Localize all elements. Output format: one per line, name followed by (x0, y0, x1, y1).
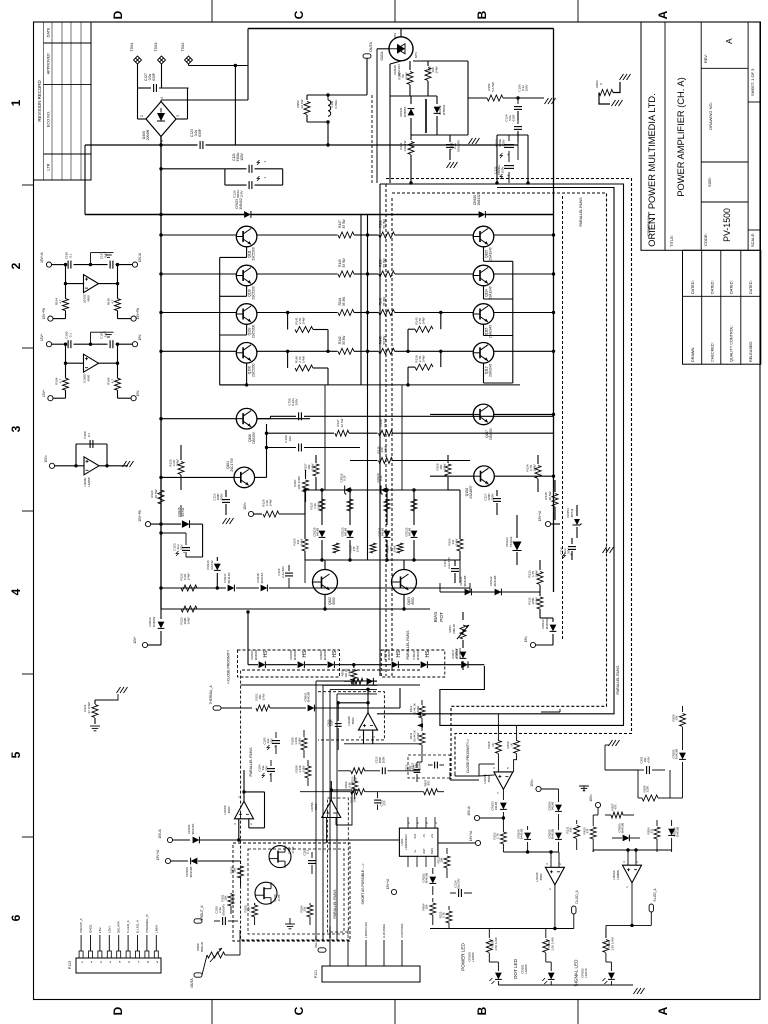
svg-text:9N416B: 9N416B (621, 823, 625, 834)
resistor R123 100K (181, 606, 197, 612)
resistor R102 18K (240, 861, 242, 864)
wire bridge bottom (160, 137, 162, 146)
svg-text:1/4W: 1/4W (297, 737, 301, 744)
svg-text:15V-: 15V- (136, 390, 140, 397)
capacitor C119 3.2u (454, 560, 456, 566)
svg-text:15V+PA: 15V+PA (136, 307, 140, 319)
wire row 1 to rail (494, 234, 554, 236)
svg-text:1/4W: 1/4W (301, 765, 305, 772)
svg-text:4: 4 (9, 588, 23, 595)
resistor R108 1.43K (307, 760, 309, 766)
terminal THERMAL_A (213, 706, 221, 710)
svg-text:HS: HS (263, 650, 269, 658)
bottom wire U300A (606, 924, 651, 926)
svg-text:POWER LED: POWER LED (460, 943, 465, 971)
svg-text:9N4003: 9N4003 (416, 649, 420, 660)
svg-text:1/4W: 1/4W (535, 597, 539, 604)
svg-text:9N414A: 9N414A (260, 573, 264, 584)
svg-text:9414B: 9414B (344, 528, 348, 536)
resistor R157 10K (315, 455, 317, 463)
terminal 15V-A U102B (474, 815, 479, 820)
svg-text:33K: 33K (569, 827, 573, 832)
U100B output up (367, 689, 369, 712)
title block (641, 22, 761, 250)
svg-text:50KLIN: 50KLIN (200, 942, 204, 952)
svg-text:0.1: 0.1 (306, 850, 310, 854)
svg-text:LM358: LM358 (87, 477, 91, 487)
ground top right block (609, 740, 620, 746)
svg-text:15V-: 15V- (524, 636, 528, 643)
U102A output down (554, 885, 556, 929)
svg-text:3.2u 50V: 3.2u 50V (447, 557, 451, 569)
svg-text:15V-: 15V- (98, 927, 102, 933)
svg-text:1/4W: 1/4W (422, 355, 426, 362)
svg-text:REVISION RECORD: REVISION RECORD (37, 80, 42, 121)
vertical riser x248 (247, 29, 249, 101)
resistor R147 33 3W (338, 232, 354, 238)
svg-text:1N4003: 1N4003 (458, 647, 462, 658)
svg-text:50V: 50V (180, 544, 184, 549)
svg-text:3: 3 (176, 115, 180, 117)
terminal 12V+ (142, 642, 147, 647)
resistor R904 (432, 898, 434, 902)
feedback run solid left (379, 184, 381, 676)
P103 pin 7 D.LED_A (136, 951, 140, 958)
ground R963 top (620, 74, 631, 80)
svg-text:SIGNAL LED: SIGNAL LED (573, 959, 578, 987)
capacitor C101 0.1 (311, 852, 313, 858)
svg-text:0.8mH: 0.8mH (334, 100, 338, 109)
zener CR120 (381, 486, 387, 495)
svg-text:2SA1943: 2SA1943 (488, 247, 492, 260)
svg-text:15V-/A: 15V-/A (138, 252, 142, 262)
resistor R303 474 (592, 820, 594, 826)
resistor R140 2.7K (287, 351, 289, 368)
svg-text:THERMAL_B: THERMAL_B (145, 914, 149, 933)
svg-text:J17B: J17B (277, 895, 281, 902)
svg-text:1/4W: 1/4W (316, 502, 320, 509)
P103 pin 1 VROUT_A (79, 951, 83, 958)
wire row 1 right (395, 234, 473, 236)
U102A pins up (550, 852, 552, 867)
svg-text:2SC5200: 2SC5200 (251, 247, 255, 261)
wire row 3 mid (257, 312, 338, 314)
svg-text:2N5064: 2N5064 (442, 104, 446, 115)
svg-text:27P: 27P (383, 800, 387, 805)
terminal OUTA bottom (194, 973, 202, 977)
svg-text:SHORT AS POSSIBLE --->: SHORT AS POSSIBLE ---> (361, 863, 365, 904)
wire row 1 mid (257, 234, 338, 236)
svg-text:9N416B: 9N416B (425, 873, 429, 884)
svg-text:A: A (656, 1006, 670, 1015)
capacitor C112 10P (414, 769, 421, 771)
driver emitter vertical (266, 424, 268, 477)
svg-text:A: A (656, 10, 670, 19)
svg-text:<-CLOSE PROXIMITY: <-CLOSE PROXIMITY (227, 649, 231, 684)
svg-text:9N4003: 9N4003 (387, 649, 391, 660)
P101 pin 4 A.0015DA (383, 940, 385, 966)
inductor L100 (328, 100, 331, 116)
svg-text:200V: 200V (220, 493, 224, 500)
svg-text:50V(NP): 50V(NP) (221, 904, 225, 915)
wire nest to U100B (559, 709, 561, 712)
capacitor C106 0.1u (517, 98, 519, 104)
op-amp cluster U300C (76, 443, 107, 445)
wire row 1 left (161, 234, 236, 236)
svg-text:4.7: 4.7 (110, 299, 114, 304)
wire base link left 3 (246, 325, 248, 336)
svg-text:100V: 100V (295, 398, 299, 405)
svg-text:100V: 100V (502, 139, 506, 146)
capacitor C127 (138, 87, 152, 89)
diode CR122 (495, 589, 502, 596)
svg-text:LED16: LED16 (584, 968, 588, 978)
svg-text:4560: 4560 (351, 717, 355, 724)
right vertical rail x553 (553, 29, 555, 593)
svg-text:CODE:: CODE: (703, 233, 708, 246)
resistor R181 33K (410, 135, 412, 140)
svg-text:A: A (724, 38, 734, 44)
svg-text:1K: 1K (509, 743, 513, 747)
resistor R161 33 3W (368, 234, 379, 236)
svg-text:1.5K 1/4W: 1.5K 1/4W (494, 937, 498, 951)
zener CR154 (576, 505, 578, 516)
resistor R304 22L (656, 820, 658, 826)
resistor R144 33 3W (338, 310, 354, 316)
svg-text:HS: HS (396, 650, 402, 658)
gate bar (425, 99, 427, 133)
zone ticks left (22, 184, 34, 186)
svg-text:50V(MP): 50V(MP) (457, 140, 461, 152)
svg-text:1/4W: 1/4W (416, 732, 420, 739)
svg-text:4: 4 (160, 97, 164, 99)
diode CR103 (500, 803, 507, 810)
resistor R183 100 (427, 61, 429, 66)
svg-text:.033: .033 (288, 436, 292, 442)
terminal 15V+A U101 (475, 840, 480, 845)
svg-text:GND1: GND1 (89, 924, 93, 933)
diode CR121 (465, 589, 472, 596)
zener CR115 (182, 520, 190, 528)
svg-text:OUT: OUT (422, 848, 426, 854)
wire parallel run 4 to P101 (336, 694, 338, 940)
svg-text:MT2: MT2 (393, 33, 397, 39)
diode CR305 (682, 742, 684, 750)
diode CR117 (228, 585, 235, 592)
wire parallel run 2 to P101 (322, 685, 324, 940)
ground U102 (583, 786, 585, 791)
capacitor C103 27P (377, 792, 379, 798)
svg-text:DOT LED: DOT LED (513, 958, 518, 979)
HS diode box left (238, 650, 340, 677)
svg-text:-IN: -IN (422, 834, 426, 838)
transistor Q112 2SA1943 (473, 343, 494, 364)
svg-text:4.2K: 4.2K (354, 777, 358, 783)
svg-text:9414B: 9414B (408, 528, 412, 536)
resistor R110 4.2K (354, 775, 356, 781)
svg-text:2: 2 (140, 115, 144, 117)
svg-text:C: C (292, 1006, 306, 1015)
ground under C116 (223, 518, 234, 524)
svg-text:T9X4: T9X4 (130, 42, 134, 51)
svg-text:4560: 4560 (86, 295, 90, 302)
svg-text:B: B (475, 1006, 489, 1015)
resistor R907 900 (424, 789, 438, 795)
svg-text:12V+: 12V+ (133, 636, 137, 644)
svg-text:SIZE:: SIZE: (707, 177, 712, 187)
svg-text:BIAS: BIAS (433, 612, 438, 622)
svg-text:1/4W: 1/4W (187, 573, 191, 580)
svg-text:DATED:: DATED: (730, 280, 734, 294)
wire y685 (241, 684, 420, 686)
svg-text:5: 5 (9, 751, 23, 758)
svg-text:S.LED_A: S.LED_A (653, 888, 657, 902)
Q103 column up (401, 385, 403, 490)
svg-text:10u 50V: 10u 50V (457, 879, 461, 890)
svg-text:DATE: DATE (46, 27, 50, 37)
diode CR113 (160, 609, 162, 619)
svg-text:9N4003: 9N4003 (254, 649, 258, 660)
resistor R184 5.6 5W (468, 97, 487, 99)
svg-text:630F: 630F (198, 129, 202, 137)
svg-text:0.1: 0.1 (68, 253, 72, 258)
svg-text:2N5054: 2N5054 (403, 106, 407, 117)
svg-text:GND1: GND1 (346, 929, 350, 938)
terminal 15V+A input (165, 858, 170, 863)
svg-text:1/4W: 1/4W (422, 317, 426, 324)
svg-text:APPROVED: APPROVED (46, 53, 50, 74)
diode CR101 (173, 839, 190, 841)
transistor Q114 2SA1943 (473, 265, 494, 286)
svg-text:1/4W: 1/4W (261, 693, 265, 700)
resistor R158 10K (447, 455, 449, 463)
svg-text:15V+/A: 15V+/A (386, 878, 390, 889)
svg-text:1/4W: 1/4W (302, 356, 306, 363)
svg-text:NC1: NC1 (413, 833, 417, 839)
wire base link left 1 (246, 247, 248, 257)
svg-text:15V+: 15V+ (40, 333, 44, 341)
arrow second feed (417, 723, 423, 727)
terminal T9X3 (158, 56, 166, 64)
svg-text:200V: 200V (491, 493, 495, 500)
ground R963 bottom (612, 100, 623, 106)
svg-text:1N4003: 1N4003 (152, 616, 156, 627)
capacitor C104 33u (270, 760, 272, 766)
diode CR164 (527, 826, 529, 830)
svg-text:9414B: 9414B (494, 802, 498, 810)
svg-text:2.7K: 2.7K (496, 833, 500, 839)
resistor R156 331 (457, 539, 463, 551)
emitter bus y385 (220, 384, 520, 386)
svg-text:474: 474 (586, 828, 590, 833)
svg-text:1N5402: 1N5402 (239, 198, 243, 209)
resistor R153 33 3W (368, 273, 379, 275)
svg-text:4.7: 4.7 (58, 299, 62, 304)
ground right bias (603, 547, 614, 553)
svg-text:2SA1837: 2SA1837 (469, 485, 473, 498)
P103 pin 2 GND1 (89, 951, 93, 958)
diode CR116 (216, 557, 218, 561)
svg-text:CHECKED:: CHECKED: (710, 342, 714, 362)
svg-text:50V: 50V (269, 738, 273, 743)
P103 pin 9 LNEA (154, 951, 158, 958)
P103 pin 8 THERMAL_B (145, 951, 149, 958)
svg-text:VROUT_A: VROUT_A (79, 917, 83, 933)
svg-text:T9X2: T9X2 (181, 42, 185, 51)
svg-text:1/4W: 1/4W (442, 463, 446, 470)
resistor R133 4.7K (539, 560, 541, 570)
svg-text:15V+: 15V+ (107, 925, 111, 933)
svg-text:10K 1/4W: 10K 1/4W (297, 476, 301, 489)
svg-text:47K: 47K (614, 804, 618, 809)
wires R953 L100 parallel (307, 94, 367, 96)
wire base link left 2 (246, 286, 248, 296)
svg-text:2SA1943: 2SA1943 (488, 286, 492, 299)
P103 pin 5 DELAYA (117, 951, 121, 958)
wire U102B feed (449, 772, 451, 780)
wire GADA (377, 48, 389, 50)
svg-text:22K: 22K (247, 906, 251, 911)
diode CR111 HS (421, 661, 428, 668)
ground triac (469, 138, 480, 144)
wire row 2 left (161, 273, 236, 275)
resistor R131 33K (576, 820, 578, 824)
svg-text:+IN: +IN (430, 834, 434, 838)
resistor R306 33K (682, 706, 684, 712)
svg-text:LM2904EN: LM2904EN (404, 834, 408, 849)
svg-text:9A416B: 9A416B (520, 829, 524, 839)
resistor R963 isolated (599, 90, 613, 96)
svg-text:22L: 22L (650, 828, 654, 833)
svg-text:POT: POT (439, 612, 444, 622)
svg-text:4K 5W: 4K 5W (154, 489, 158, 498)
resistor R305 225K (642, 795, 658, 801)
svg-text:10A: 10A (425, 904, 429, 909)
input dashed box inner (248, 849, 344, 934)
capacitor C906 100P (337, 703, 339, 721)
svg-text:PARALLEL RUNS: PARALLEL RUNS (616, 665, 620, 695)
wire base link right 1 (483, 247, 485, 261)
svg-text:4560: 4560 (314, 803, 318, 810)
svg-text:D.LED_A: D.LED_A (575, 889, 579, 903)
svg-text:J17B: J17B (291, 847, 295, 854)
JFET Q101 (269, 846, 291, 868)
transistor Q111 2SC5200 (236, 226, 257, 247)
svg-text:33K 1W: 33K 1W (403, 140, 407, 151)
diode CR129 9414B branch (321, 490, 323, 525)
svg-text:0.1: 0.1 (68, 333, 72, 338)
svg-text:100V: 100V (240, 189, 244, 197)
svg-text:D: D (111, 1006, 125, 1015)
svg-text:2.2u 50V: 2.2u 50V (281, 566, 285, 578)
svg-text:1/4W: 1/4W (535, 570, 539, 577)
P101 pin 3 LROFF1SA (365, 940, 367, 966)
capacitor C123 (161, 144, 198, 146)
SCR CR162 (436, 96, 438, 104)
diode CR923 (244, 211, 251, 218)
resistor R121 47 (94, 700, 96, 704)
svg-text:15V-: 15V- (138, 334, 142, 341)
svg-text:4K 5W: 4K 5W (548, 491, 552, 500)
main rail left x85 (84, 145, 86, 215)
svg-text:1N5432: 1N5432 (477, 194, 481, 206)
resistor R145 33 3W (338, 271, 354, 277)
driver transistor Q10G right (474, 466, 495, 487)
svg-text:1/4W: 1/4W (187, 617, 191, 624)
resistor R112 60.4K (421, 700, 423, 705)
P103 pin 3 15V- (98, 951, 102, 958)
wire row 3 to rail (494, 312, 554, 314)
wire C124 down (517, 142, 519, 160)
resistor R953 22 1W (306, 95, 308, 100)
wire DOT LED to U102A (550, 927, 552, 929)
bridge rectifier D400 (146, 102, 176, 137)
capacitor C925 (449, 135, 451, 142)
wire to bridge (137, 88, 139, 119)
feedback run dashed left pair (385, 184, 387, 676)
svg-text:P103: P103 (68, 961, 72, 969)
svg-text:6: 6 (9, 914, 23, 921)
svg-text:33 3W: 33 3W (342, 219, 346, 228)
power transistor Q102 (313, 570, 338, 595)
svg-text:4560: 4560 (539, 873, 543, 880)
svg-text:DATED:: DATED: (710, 280, 714, 294)
svg-text:100V: 100V (501, 166, 505, 173)
Q102 column up (324, 385, 326, 490)
terminal 15V= U102 (536, 786, 541, 791)
P101 pin 5 4.00TSOA (401, 940, 403, 966)
transistor Q105 2SA1943 (473, 226, 494, 247)
svg-text:B: B (475, 10, 489, 19)
diode CR118b (261, 585, 268, 592)
op-amp U102A (545, 867, 564, 885)
capacitor C100 NP (214, 920, 220, 922)
diode CR131 9414B branch (386, 490, 388, 525)
svg-text:2SC5200: 2SC5200 (251, 286, 255, 300)
ground input (285, 924, 295, 929)
svg-text:22 1W: 22 1W (300, 99, 304, 108)
diode CR961 (308, 705, 315, 712)
svg-text:PARALLEL RUNS: PARALLEL RUNS (579, 197, 583, 227)
svg-text:9N414R: 9N414R (227, 572, 231, 584)
svg-text:A.0015DA: A.0015DA (382, 923, 386, 938)
svg-text:200V: 200V (381, 757, 385, 764)
svg-text:SHEET: 1 OF 3: SHEET: 1 OF 3 (750, 68, 755, 96)
diode CR909 HS (328, 661, 335, 668)
svg-text:4.00TSOA: 4.00TSOA (400, 923, 404, 938)
sign-off table (683, 250, 761, 364)
svg-text:1N416B: 1N416B (676, 827, 680, 838)
transistor Q115 2SA1943 (473, 304, 494, 325)
svg-text:5.6 5W: 5.6 5W (491, 82, 495, 92)
svg-text:1.5K 1/4W: 1.5K 1/4W (611, 937, 615, 951)
HS wire (247, 612, 249, 665)
svg-text:BIAS: BIAS (430, 848, 434, 854)
resistor R105 10K (351, 789, 365, 795)
op-amp U100A (235, 801, 254, 819)
svg-text:10V=: 10V= (243, 502, 247, 510)
wire parallel run 1 to P101 (315, 681, 317, 940)
svg-text:LTR: LTR (46, 163, 50, 170)
cap cluster loop sides (224, 169, 226, 185)
svg-text:4.7: 4.7 (58, 379, 62, 384)
U100B dashed box (318, 692, 384, 740)
connector P103 (76, 958, 161, 973)
svg-text:9N4003: 9N4003 (293, 649, 297, 660)
svg-text:PARALLEL RUNS: PARALLEL RUNS (249, 747, 253, 777)
svg-text:POWER AMPLIFIER (CH. A): POWER AMPLIFIER (CH. A) (676, 77, 686, 196)
driver transistor Q107 right (473, 404, 494, 425)
